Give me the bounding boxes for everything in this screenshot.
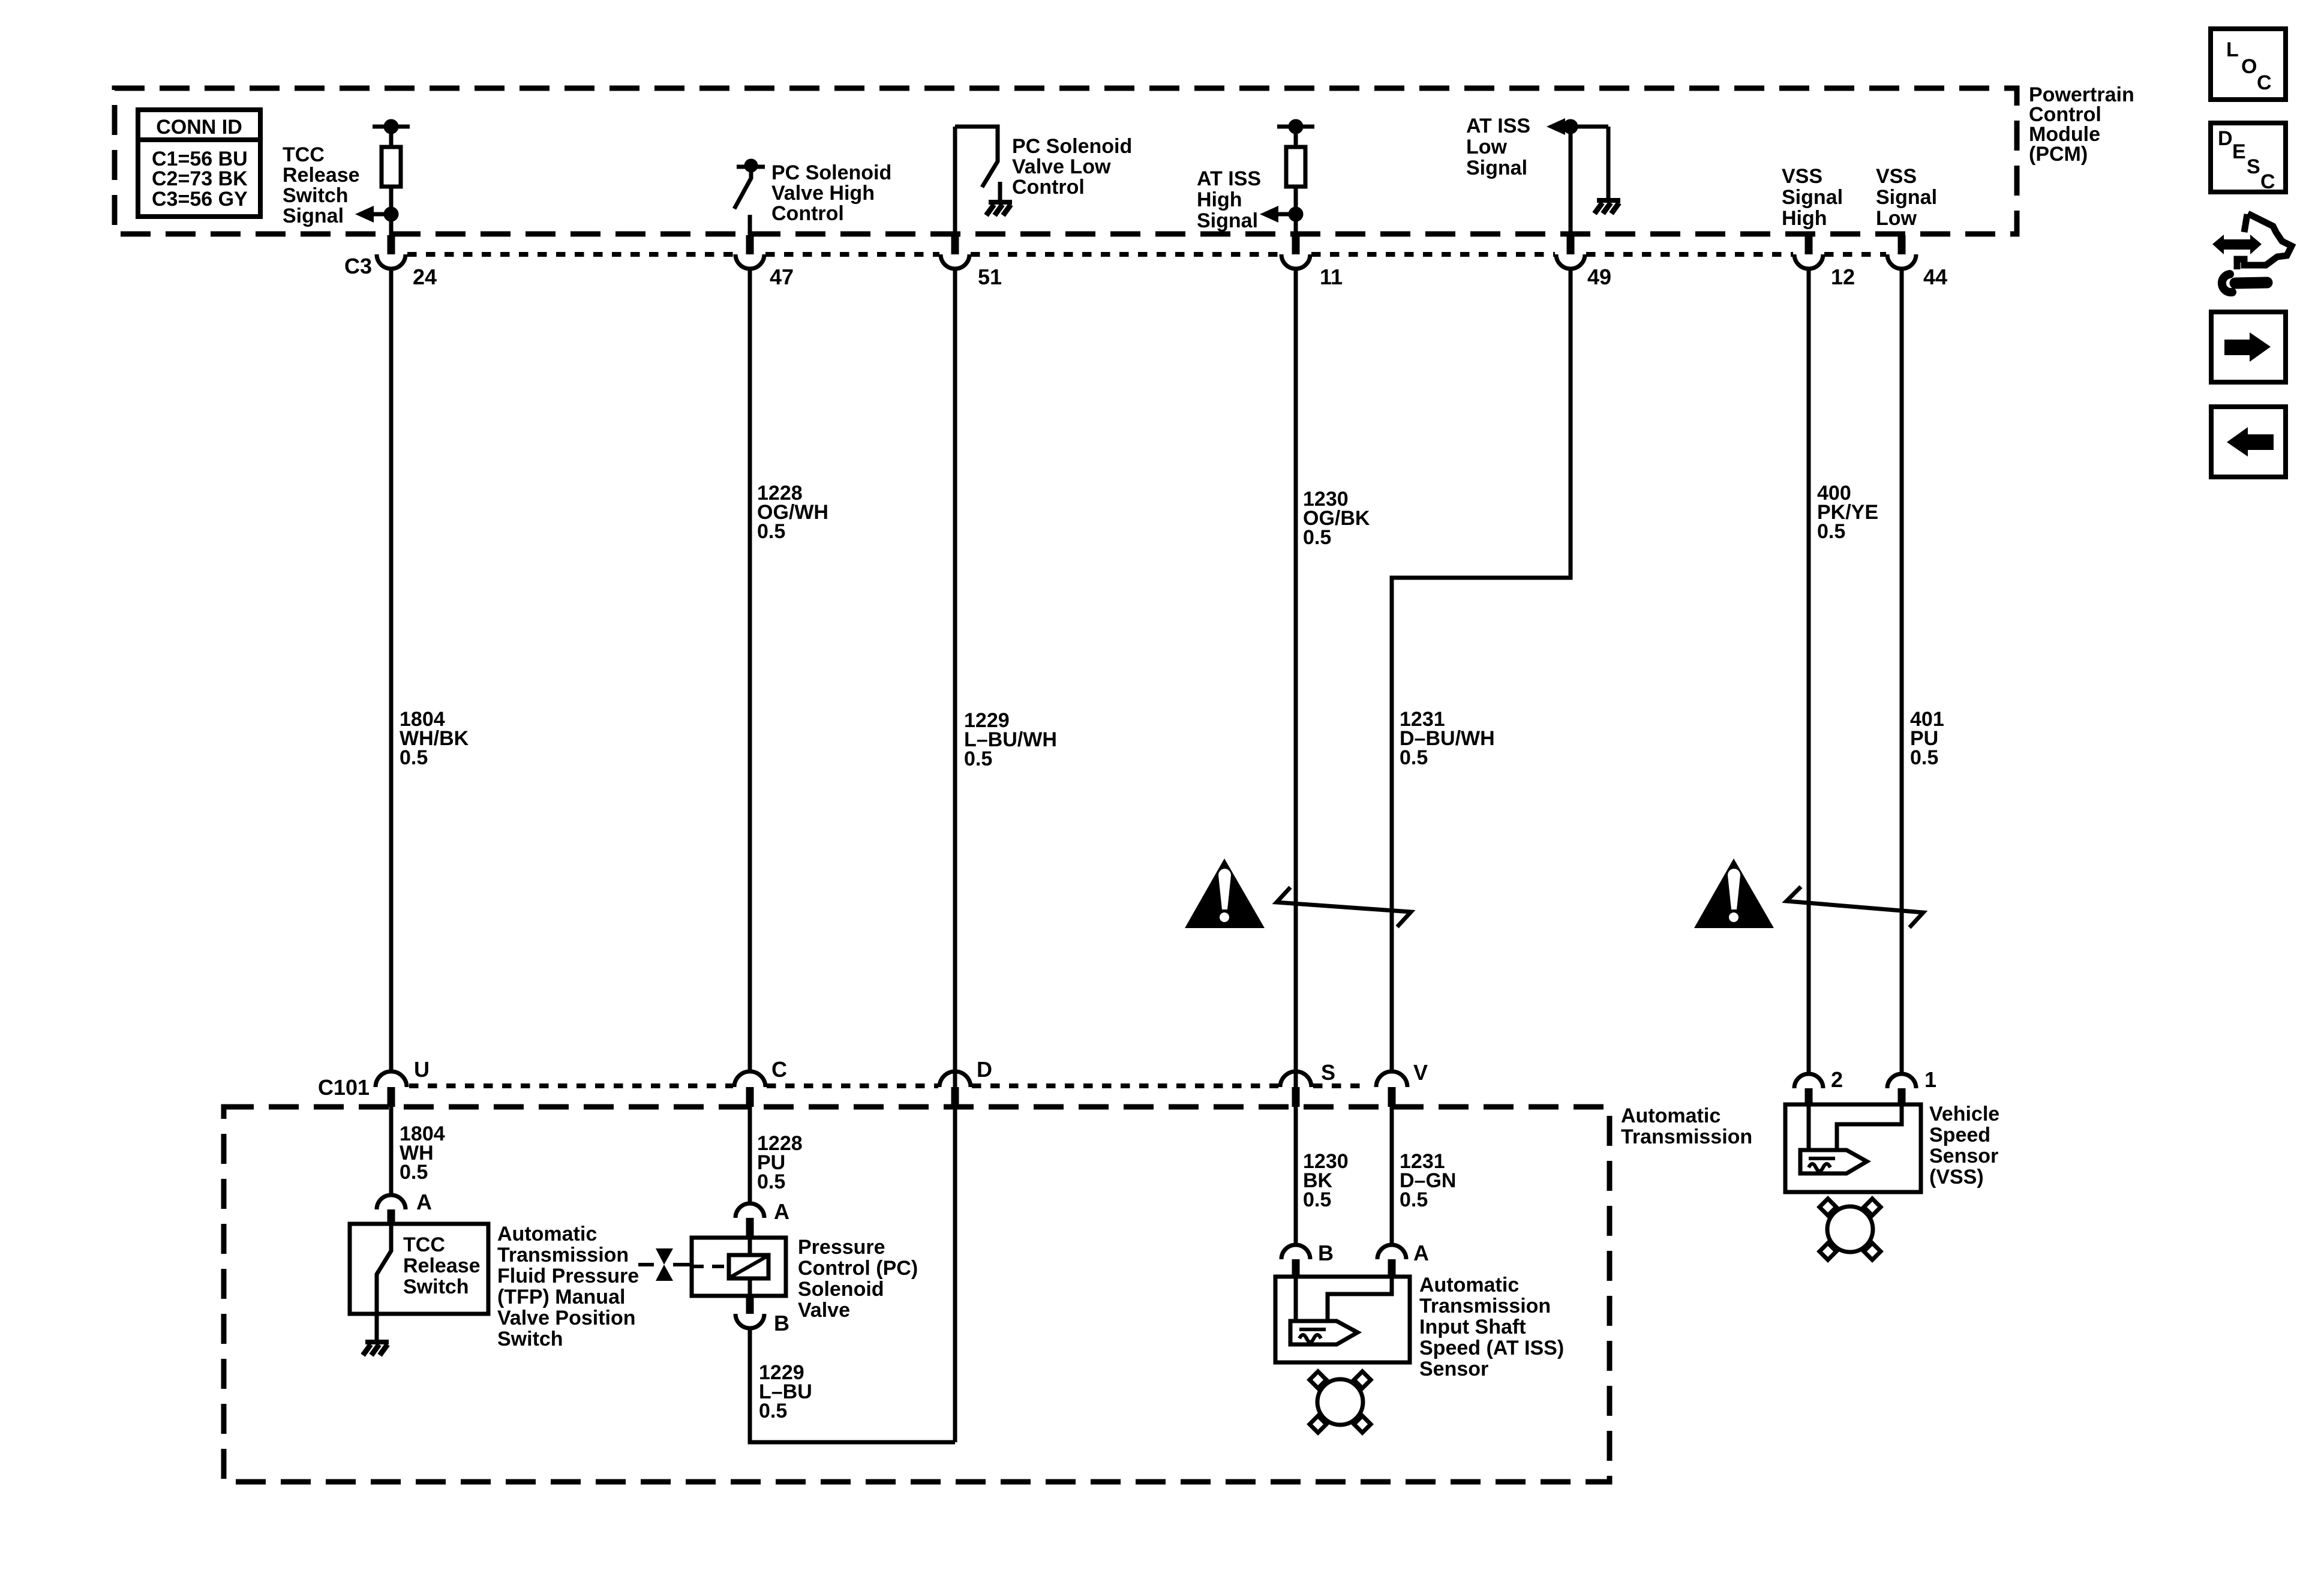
svg-text:Automatic: Automatic (1621, 1104, 1721, 1127)
junction dot AT ISS rail (1290, 121, 1301, 132)
svg-text:24: 24 (413, 265, 437, 289)
pin A stub AT ISS sensor (1388, 1259, 1396, 1277)
svg-text:V: V (1413, 1060, 1428, 1085)
PC solenoid valve box (692, 1238, 786, 1296)
svg-text:Low: Low (1466, 136, 1508, 158)
svg-text:Valve High: Valve High (771, 182, 875, 205)
wire rail to resistor R-ISS (1294, 127, 1298, 147)
svg-text:S: S (1321, 1060, 1335, 1085)
wire rail to resistor R-TCC (389, 127, 394, 147)
connector A dome AT ISS sensor (1377, 1245, 1406, 1259)
wire AT ISS low to pin 49 (1569, 127, 1573, 235)
label Automatic Transmission Fluid Pressure (TFP) Manual Valve Position Switch (497, 1223, 639, 1350)
TCC signal arrow shaft (373, 212, 391, 217)
AT ISS sensor internal wires (1294, 1277, 1298, 1321)
svg-text:0.5: 0.5 (757, 1170, 785, 1193)
svg-text:C: C (771, 1057, 787, 1082)
ground PC solenoid low (986, 182, 1012, 215)
C101 pin S dome (1280, 1071, 1311, 1087)
svg-text:C: C (2260, 170, 2275, 193)
wire resistor to pin 11 (1294, 187, 1298, 235)
pin 51 stub (951, 235, 959, 254)
svg-text:44: 44 (1923, 265, 1947, 289)
label VSS Signal High (1782, 165, 1843, 230)
svg-text:47: 47 (770, 265, 794, 289)
label TCC Release Switch (403, 1233, 481, 1298)
wire V to AT ISS sensor (1231 D-GN) (1390, 1107, 1394, 1245)
svg-text:Sensor: Sensor (1929, 1145, 1998, 1167)
LOC icon box (2211, 29, 2286, 100)
svg-text:C3=56 GY: C3=56 GY (152, 188, 248, 211)
AT ISS low signal arrowhead (1547, 118, 1565, 135)
svg-text:Signal: Signal (1466, 157, 1527, 179)
resistor R-TCC (382, 147, 401, 187)
svg-text:12: 12 (1831, 265, 1855, 289)
label Powertrain Control Module (PCM) (2029, 83, 2134, 166)
label VSS Signal Low (1876, 165, 1937, 230)
wire PC low to pin 51 (953, 127, 957, 235)
svg-text:Speed (AT ISS): Speed (AT ISS) (1419, 1337, 1564, 1359)
label wire 1229 L-BU 0.5 (759, 1361, 812, 1422)
VSS pin 1 dome (1887, 1074, 1916, 1088)
wire resistor to pin 24 (389, 187, 394, 235)
svg-text:Solenoid: Solenoid (798, 1278, 884, 1301)
svg-text:S: S (2247, 155, 2260, 178)
svg-text:TCC: TCC (283, 143, 325, 166)
AT ISS reluctor wheel (1317, 1379, 1363, 1425)
svg-text:(TFP) Manual: (TFP) Manual (497, 1286, 625, 1308)
svg-text:Sensor: Sensor (1419, 1358, 1488, 1380)
svg-text:C: C (2257, 71, 2272, 94)
svg-text:E: E (2232, 140, 2246, 163)
svg-text:D: D (2218, 127, 2233, 150)
svg-text:Automatic: Automatic (1419, 1274, 1519, 1296)
AT ISS high signal arrow shaft (1278, 212, 1296, 217)
pin 2 stub VSS (1805, 1088, 1813, 1106)
label wire 1231 D-BU/WH 0.5 (1400, 708, 1495, 769)
svg-text:TCC: TCC (403, 1233, 445, 1256)
svg-text:C2=73 BK: C2=73 BK (152, 167, 248, 190)
svg-text:Valve: Valve (798, 1299, 850, 1322)
label PC Solenoid Valve High Control (771, 161, 891, 225)
coil stubs (748, 1238, 752, 1255)
svg-text:0.5: 0.5 (1817, 520, 1845, 543)
TCC signal arrowhead (355, 206, 374, 223)
svg-text:11: 11 (1320, 265, 1343, 289)
svg-text:Control (PC): Control (PC) (798, 1257, 918, 1280)
pin 24 connector arc (377, 254, 406, 269)
connector A dome TCC switch (377, 1195, 406, 1209)
label TCC Release Switch Signal (283, 143, 360, 227)
svg-text:0.5: 0.5 (757, 520, 785, 543)
pin 1 stub VSS (1898, 1088, 1906, 1106)
C101 pin V dome (1376, 1071, 1407, 1087)
right arrow icon box (2211, 312, 2286, 382)
pin C stub (746, 1087, 754, 1107)
svg-text:C101: C101 (318, 1075, 370, 1100)
label wire 1228 PU 0.5 (757, 1132, 803, 1193)
VSS sensor box (1785, 1104, 1921, 1192)
junction dot AT ISS high signal (1290, 209, 1301, 220)
wire 1228 OG/WH (748, 269, 752, 1071)
switch blade PC high (734, 167, 751, 209)
vehicle service icon (2237, 214, 2292, 269)
svg-text:O: O (2241, 55, 2257, 78)
svg-text:0.5: 0.5 (1303, 1188, 1331, 1211)
svg-text:Switch: Switch (283, 184, 349, 207)
svg-text:Signal: Signal (1876, 186, 1937, 209)
AT ISS high pull-up rail (1277, 125, 1314, 129)
junction dot PC high (746, 161, 756, 170)
label wire 1230 BK 0.5 (1303, 1150, 1349, 1211)
svg-text:(PCM): (PCM) (2029, 143, 2088, 166)
pin D stub (951, 1087, 959, 1107)
junction dot AT ISS low (1565, 121, 1576, 132)
pin 11 connector arc (1281, 254, 1310, 269)
svg-text:0.5: 0.5 (1910, 746, 1938, 769)
warning triangle AT ISS (1185, 858, 1265, 928)
AT ISS low signal arrow shaft (1564, 125, 1608, 129)
svg-text:0.5: 0.5 (1303, 526, 1331, 549)
svg-text:Signal: Signal (1197, 209, 1258, 232)
TCC switch blade (377, 1226, 391, 1314)
svg-text:VSS: VSS (1782, 165, 1822, 188)
svg-text:1: 1 (1924, 1067, 1936, 1092)
PCM module dashed box (115, 88, 2017, 234)
pin S stub (1292, 1087, 1300, 1107)
wire C to PC solenoid (1228 PU) (748, 1107, 752, 1203)
solenoid coil diagonal (731, 1257, 766, 1277)
ground TCC switch (363, 1342, 389, 1355)
svg-text:Control: Control (1012, 176, 1085, 199)
wrench of service icon (2235, 283, 2267, 283)
svg-text:A: A (774, 1199, 789, 1224)
pin 11 stub (1292, 235, 1300, 254)
wire to ground AT ISS low (1607, 127, 1611, 199)
wire 1230 OG/BK (1294, 269, 1298, 1244)
label AT ISS Low Signal (1466, 115, 1530, 179)
svg-text:AT ISS: AT ISS (1197, 167, 1261, 190)
PCM connector dotted line C3 row (407, 252, 1886, 257)
ground AT ISS low (1595, 200, 1620, 214)
svg-text:Valve Position: Valve Position (497, 1307, 636, 1329)
svg-text:Signal: Signal (283, 205, 344, 227)
svg-text:D: D (977, 1057, 992, 1082)
label PC Solenoid Valve Low Control (1012, 135, 1132, 199)
AT ISS sensor box (1275, 1277, 1410, 1362)
pin V stub (1388, 1087, 1396, 1107)
label wire 1229 L-BU/WH 0.5 (964, 709, 1057, 770)
label Pressure Control (PC) Solenoid Valve (798, 1236, 918, 1322)
svg-text:Switch: Switch (497, 1328, 563, 1350)
svg-text:VSS: VSS (1876, 165, 1917, 188)
svg-text:A: A (1413, 1241, 1429, 1265)
svg-text:A: A (416, 1190, 432, 1214)
svg-text:(VSS): (VSS) (1929, 1166, 1984, 1188)
twisted pair symbol AT ISS (1277, 887, 1411, 927)
label wire 400 PK/YE 0.5 (1817, 482, 1878, 543)
junction dot TCC signal (386, 209, 397, 220)
connector A dome PC solenoid (735, 1203, 764, 1218)
left arrow icon box (2211, 407, 2286, 477)
PC solenoid low control switch symbol (955, 127, 998, 187)
wire 1229 L-BU return (750, 1328, 955, 1442)
svg-text:2: 2 (1831, 1067, 1843, 1092)
svg-text:CONN ID: CONN ID (156, 116, 242, 139)
pin 51 connector arc (941, 254, 969, 269)
resistor R-ISS (1286, 147, 1305, 187)
VSS pickup element (1800, 1150, 1867, 1173)
svg-text:B: B (774, 1311, 789, 1335)
VSS internal wires (1807, 1106, 1811, 1150)
svg-text:High: High (1782, 207, 1827, 230)
label wire 1804 WH 0.5 (400, 1122, 445, 1184)
junction dot on TCC rail (386, 121, 397, 132)
svg-text:Vehicle: Vehicle (1929, 1103, 1999, 1125)
PC solenoid high control switch rail (737, 165, 765, 169)
svg-text:0.5: 0.5 (400, 1161, 428, 1184)
svg-text:Signal: Signal (1782, 186, 1843, 209)
automatic transmission dashed box (224, 1107, 1610, 1482)
label wire 1231 D-GN 0.5 (1400, 1150, 1456, 1211)
svg-text:C3: C3 (344, 254, 372, 278)
label Automatic Transmission Input Shaft Speed (AT ISS) Sensor (1419, 1274, 1564, 1380)
svg-text:0.5: 0.5 (1400, 1188, 1428, 1211)
pin A stub TCC switch (388, 1209, 395, 1226)
pin 12 stub (1805, 235, 1813, 254)
pin 12 connector arc (1794, 254, 1823, 269)
DESC icon box (2211, 123, 2286, 192)
warning triangle VSS (1694, 858, 1774, 928)
pin 49 connector arc (1556, 254, 1585, 269)
wire 401 PU (1900, 269, 1904, 1074)
connector C101 dotted line (409, 1083, 1365, 1088)
svg-text:Release: Release (403, 1254, 481, 1277)
svg-text:PC Solenoid: PC Solenoid (771, 161, 891, 184)
label wire 1228 OG/WH 0.5 (757, 482, 828, 543)
pin B stub AT ISS sensor (1292, 1259, 1300, 1277)
pin A stub PC solenoid (746, 1218, 754, 1238)
svg-text:Control: Control (771, 202, 844, 225)
wire switch to pin 47 (748, 215, 752, 235)
pin 47 connector arc (735, 254, 764, 269)
svg-text:Switch: Switch (403, 1275, 469, 1298)
C101 pin C dome (734, 1071, 765, 1087)
label wire 1230 OG/BK 0.5 (1303, 488, 1370, 549)
AT ISS pickup element (1290, 1321, 1358, 1344)
VSS pin 2 dome (1794, 1074, 1823, 1088)
solenoid coil rect (729, 1255, 768, 1278)
svg-text:Transmission: Transmission (1419, 1295, 1551, 1317)
TCC pull-up rail (373, 125, 410, 129)
svg-text:L: L (2226, 38, 2239, 61)
svg-text:49: 49 (1587, 265, 1611, 289)
pin 49 stub (1567, 235, 1575, 254)
label Vehicle Speed Sensor (VSS) (1929, 1103, 1999, 1188)
svg-text:0.5: 0.5 (964, 748, 992, 770)
TCC release switch box (350, 1224, 488, 1314)
svg-text:Speed: Speed (1929, 1124, 1990, 1146)
svg-text:0.5: 0.5 (400, 746, 428, 769)
label wire 401 PU 0.5 (1910, 708, 1944, 769)
double arrow of service icon (2212, 235, 2224, 254)
svg-text:Valve Low: Valve Low (1012, 155, 1111, 178)
svg-text:Low: Low (1876, 207, 1917, 230)
svg-text:U: U (414, 1057, 430, 1082)
twisted pair symbol VSS (1786, 887, 1923, 927)
svg-text:51: 51 (978, 265, 1002, 289)
valve link dashes (692, 1265, 729, 1268)
C101 pin U dome (376, 1071, 407, 1087)
wire 1231 D-BU/WH with jog (1392, 269, 1571, 1071)
wire U to TCC switch (1804 WH) (389, 1107, 394, 1194)
svg-text:PC Solenoid: PC Solenoid (1012, 135, 1132, 158)
C101 pin D dome (939, 1071, 971, 1087)
svg-text:0.5: 0.5 (1400, 746, 1428, 769)
label wire 1804 WH/BK 0.5 (400, 708, 469, 769)
wire 400 PK/YE (1807, 269, 1811, 1074)
label Automatic Transmission (1621, 1104, 1752, 1148)
svg-text:Input Shaft: Input Shaft (1419, 1316, 1526, 1338)
svg-text:Automatic: Automatic (497, 1223, 597, 1245)
svg-text:0.5: 0.5 (759, 1400, 787, 1422)
svg-text:Release: Release (283, 164, 360, 187)
wire TCC switch to ground (375, 1314, 379, 1341)
label AT ISS High Signal (1197, 167, 1261, 232)
svg-text:Fluid Pressure: Fluid Pressure (497, 1265, 639, 1287)
valve bowtie symbol (656, 1248, 673, 1265)
pin U stub (388, 1087, 395, 1107)
wire S to AT ISS sensor (1230 BK) (1294, 1107, 1298, 1245)
pin 24 stub (388, 235, 395, 254)
svg-text:AT ISS: AT ISS (1466, 115, 1530, 137)
connector B cup PC solenoid (735, 1314, 764, 1328)
pin 44 stub (1898, 235, 1906, 254)
wire 1229 L-BU/WH (953, 269, 957, 1442)
svg-text:High: High (1197, 188, 1242, 211)
VSS reluctor wheel (1827, 1206, 1873, 1252)
connector B dome AT ISS sensor (1281, 1245, 1310, 1259)
pin 44 connector arc (1887, 254, 1916, 269)
AT ISS high signal arrowhead (1260, 206, 1278, 223)
pin B stub PC solenoid (746, 1296, 754, 1314)
pin 47 stub (746, 235, 754, 254)
CONN ID table (138, 110, 260, 217)
svg-text:Transmission: Transmission (497, 1244, 629, 1266)
svg-text:B: B (1318, 1241, 1334, 1265)
svg-text:Transmission: Transmission (1621, 1125, 1752, 1148)
wire 1804 WH/BK (389, 269, 394, 1071)
svg-text:Pressure: Pressure (798, 1236, 885, 1259)
